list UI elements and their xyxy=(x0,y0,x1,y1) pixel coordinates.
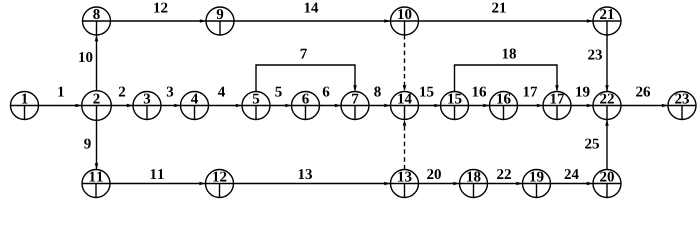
node 14 (event circle) xyxy=(391,92,419,120)
node 1 (event circle) xyxy=(11,92,39,120)
activity 11 arrow, node 11 to node 12 xyxy=(110,169,206,185)
node 16 (event circle) xyxy=(490,92,518,120)
activity 16 arrow, node 15 to node 16 xyxy=(469,87,490,108)
activity 5 arrow, node 5 to node 6 xyxy=(270,87,292,108)
node 11 (event circle) xyxy=(82,170,110,198)
node 4 (event circle) xyxy=(181,92,209,120)
node 18 (event circle) xyxy=(460,170,488,198)
activity 22 arrow, node 18 to node 19 xyxy=(488,169,523,185)
activity 23 arrow, node 21 down to node 22 xyxy=(588,35,609,92)
activity 26 arrow, node 22 to node 23 xyxy=(621,87,668,108)
node 8 (event circle) xyxy=(83,7,111,35)
node 10 (event circle) xyxy=(391,7,419,35)
activity 1 arrow, node 1 to node 2 xyxy=(39,87,82,108)
activity 6 arrow, node 6 to node 7 xyxy=(320,87,342,108)
activity 19 arrow, node 17 to node 22 xyxy=(571,87,593,108)
node 13 (event circle) xyxy=(391,170,419,198)
node 23 (event circle) xyxy=(668,92,696,120)
activity 8 arrow, node 7 to node 14 xyxy=(369,87,391,108)
node 6 (event circle) xyxy=(292,92,320,120)
node 2 (event circle) xyxy=(82,91,112,121)
activity 25 arrow, node 20 up to node 22 xyxy=(585,120,609,170)
activity 4 arrow, node 4 to node 5 xyxy=(209,87,243,108)
activity 9 arrow, node 2 down to node 11 xyxy=(84,120,98,169)
activity 18 arrow, node 15 over to node 17 xyxy=(455,49,559,92)
dummy activity dashed arrow, node 13 up to node 14 xyxy=(403,120,407,170)
activity 2 arrow, node 2 to node 3 xyxy=(111,87,133,108)
node 5 (event circle) xyxy=(242,92,270,120)
node 17 (event circle) xyxy=(543,92,571,120)
node 22 (event circle) xyxy=(593,92,621,120)
activity 13 arrow, node 12 to node 13 xyxy=(234,169,391,185)
activity 10 arrow, node 2 up to node 8 xyxy=(79,35,98,91)
node 7 (event circle) xyxy=(341,92,369,120)
node 12 (event circle) xyxy=(206,170,234,198)
activity 24 arrow, node 19 to node 20 xyxy=(551,169,594,185)
node 19 (event circle) xyxy=(523,170,551,198)
node 9 (event circle) xyxy=(206,7,234,35)
activity 12 arrow, node 8 to node 9 xyxy=(111,3,207,23)
activity 7 arrow, node 5 over to node 7 xyxy=(256,49,357,92)
node 3 (event circle) xyxy=(133,92,161,120)
node 21 (event circle) xyxy=(593,7,621,35)
activity 15 arrow, node 14 to node 15 xyxy=(419,87,441,108)
activity 14 arrow, node 9 to node 10 xyxy=(234,3,391,23)
activity 3 arrow, node 3 to node 4 xyxy=(161,87,181,108)
activity 21 arrow, node 10 to node 21 xyxy=(419,3,594,23)
activity 20 arrow, node 13 to node 18 xyxy=(419,169,460,185)
activity 17 arrow, node 16 to node 17 xyxy=(518,87,544,108)
node 15 (event circle) xyxy=(441,92,469,120)
dummy activity dashed arrow, node 10 down to node 14 xyxy=(403,35,407,92)
node 20 (event circle) xyxy=(593,170,621,198)
